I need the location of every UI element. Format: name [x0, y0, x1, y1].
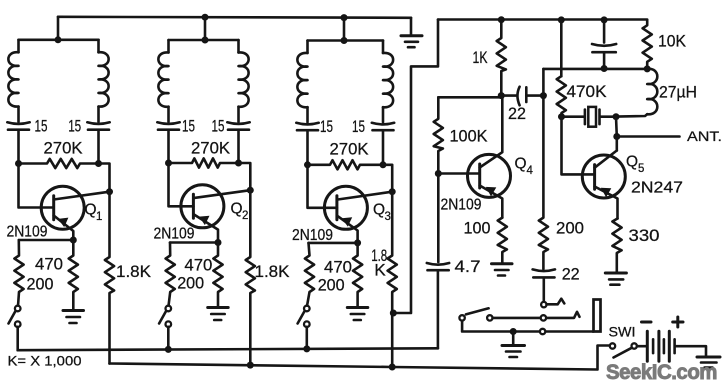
wire right section feed from top bus	[394, 20, 439, 314]
wire Q5 base branch	[562, 117, 595, 175]
svg-text:K= X 1,000: K= X 1,000	[8, 352, 82, 368]
inductor L3b right winding	[383, 41, 393, 123]
ground row B	[502, 332, 525, 358]
battery B1	[647, 331, 674, 361]
svg-text:100: 100	[464, 218, 491, 237]
wire coil top stage 3	[308, 39, 384, 42]
node Q3 collector dot	[389, 188, 396, 195]
wire stage2 base branch	[169, 163, 194, 206]
resistor R 1.8K stage 3	[388, 192, 397, 367]
svg-text:SWI: SWI	[609, 325, 636, 340]
svg-text:5: 5	[638, 163, 644, 175]
node coil tap 2	[202, 37, 209, 44]
wire SW1 to battery	[637, 345, 646, 348]
svg-text:470: 470	[184, 255, 212, 274]
capacitor 15 stage 2 left	[157, 122, 179, 163]
node 470K top	[558, 16, 565, 23]
node stage3 emitter dot	[354, 239, 361, 246]
svg-text:Q: Q	[626, 154, 638, 171]
capacitor 4.7	[427, 177, 449, 349]
node Q2 collector dot	[247, 187, 254, 194]
svg-text:Q: Q	[231, 201, 243, 218]
node 1K bottom 22cap left	[498, 92, 505, 99]
svg-text:4: 4	[527, 165, 534, 177]
wire stage3 base branch	[308, 165, 337, 208]
label battery minus	[642, 321, 652, 324]
svg-text:2: 2	[242, 210, 248, 222]
wire tap stub stage 3	[343, 18, 346, 41]
node 1K top	[498, 16, 505, 23]
node stage1 base junction	[15, 160, 22, 167]
ground battery	[697, 357, 720, 368]
switch contact row A right	[541, 312, 580, 321]
wire switch row A	[493, 317, 541, 320]
label Q2	[231, 201, 249, 223]
svg-text:100K: 100K	[450, 126, 489, 145]
node stage3 switch to bus	[303, 345, 310, 352]
svg-text:2N109: 2N109	[292, 227, 333, 244]
svg-text:200: 200	[177, 274, 204, 293]
ground stage 1 emitter	[63, 311, 84, 324]
switch contact from 22 cap	[541, 299, 564, 308]
svg-text:1.8K: 1.8K	[255, 262, 291, 281]
svg-text:2N109: 2N109	[7, 224, 48, 241]
svg-text:Q: Q	[85, 202, 97, 219]
wire bus2 ground return	[110, 346, 610, 370]
capacitor top right	[592, 20, 616, 69]
resistor 470/200 stage 1	[14, 240, 23, 306]
transistor Q2	[181, 185, 250, 243]
resistor 270K stage 3	[308, 160, 384, 169]
transistor Q4	[468, 96, 511, 218]
resistor R 1.8K stage 1	[105, 192, 114, 364]
wire Q5 collector from ANT node	[615, 137, 618, 151]
crystal Y1	[585, 107, 600, 127]
wire coil top stage 2	[169, 39, 239, 42]
wire bus1 switch common	[18, 348, 438, 350]
wire tap stub stage 2	[204, 17, 207, 40]
wire 22cap node up to row y69	[542, 69, 545, 96]
transistor Q5	[582, 151, 625, 219]
resistor emitter 470 stage3 to ground	[353, 243, 362, 307]
capacitor 15 stage 1 left	[7, 122, 29, 163]
inductor L2a left winding	[158, 40, 168, 122]
svg-text:15: 15	[212, 117, 225, 136]
label Q1	[85, 202, 103, 224]
svg-text:ANT.: ANT.	[687, 129, 722, 144]
label Q4	[515, 156, 534, 178]
capacitor 22 bypass	[533, 269, 555, 301]
node 10K bottom coil top	[644, 65, 651, 72]
svg-text:270K: 270K	[191, 138, 231, 157]
svg-text:330: 330	[629, 226, 660, 245]
ground stage 2 emitter	[208, 308, 229, 321]
svg-text:1.8K: 1.8K	[116, 262, 152, 281]
resistor 470/200 stage 3	[305, 243, 314, 306]
node stage2 switch to bus	[165, 346, 172, 353]
svg-text:15: 15	[320, 117, 333, 136]
resistor 330	[612, 219, 621, 273]
node 22cap right junction	[540, 92, 547, 99]
svg-text:270K: 270K	[44, 138, 84, 157]
node Q4 base junction	[435, 170, 442, 177]
wire top supply bus right section	[438, 18, 647, 21]
capacitor 15 stage 3 left	[296, 123, 318, 165]
inductor 27uH	[616, 69, 657, 117]
resistor 270K stage 2	[169, 158, 239, 167]
node stage3 1.8K to bus2	[389, 364, 396, 371]
resistor R 1.8K stage 2	[246, 190, 255, 365]
switch stage 3	[298, 306, 310, 349]
svg-text:Q: Q	[515, 156, 527, 173]
inductor L3a left winding	[297, 41, 307, 123]
capacitor 15 stage 2 right	[227, 122, 249, 163]
svg-text:27µH: 27µH	[659, 84, 697, 102]
capacitor 15 stage 1 right	[87, 122, 109, 163]
wire crystal row	[562, 115, 617, 118]
node coil tap 3	[341, 37, 348, 44]
switch contact row B	[540, 329, 545, 334]
ground stage 3 emitter	[347, 308, 368, 321]
svg-text:15: 15	[68, 117, 81, 136]
wire battery to ground	[676, 346, 707, 356]
label battery plus	[673, 317, 683, 327]
svg-text:200: 200	[318, 275, 345, 294]
resistor 100 Q4 emitter	[498, 218, 507, 263]
resistor emitter 470 stage1 to ground	[69, 240, 78, 310]
wire 470K top stub	[560, 20, 563, 76]
switch bank rotary left contact	[459, 308, 492, 320]
node crystal left 470K bottom	[558, 113, 565, 120]
node cap bottom	[601, 65, 608, 72]
jack J1	[594, 300, 601, 332]
wire Q4 base lead	[438, 172, 479, 175]
svg-text:Q: Q	[373, 202, 385, 219]
node cap top	[601, 16, 608, 23]
node stage1 collector junction	[95, 160, 102, 167]
inductor L1a left winding	[8, 40, 18, 122]
wire switch row B	[462, 321, 593, 332]
svg-text:22: 22	[508, 104, 526, 123]
value label 1.8 K stage3	[371, 246, 387, 279]
node stage2 1.8K to bus2	[247, 362, 254, 369]
resistor 470K	[557, 76, 566, 117]
resistor 470/200 stage 2	[166, 243, 175, 307]
node stage1 emitter dot	[70, 237, 77, 244]
inductor L2b right winding	[239, 40, 249, 122]
svg-text:15: 15	[35, 117, 48, 136]
switch SW1	[610, 343, 637, 357]
svg-text:470: 470	[35, 254, 63, 273]
resistor 1K	[497, 20, 506, 96]
wire crystal node to ANT node	[615, 117, 618, 137]
wire coil top stage 1	[19, 38, 99, 41]
svg-text:3: 3	[385, 211, 391, 223]
svg-text:22: 22	[562, 264, 580, 283]
svg-text:1K: 1K	[473, 48, 488, 67]
svg-text:470: 470	[324, 257, 352, 276]
resistor 100K	[434, 97, 443, 173]
transistor Q3	[324, 186, 392, 243]
wire 100K top row	[438, 96, 501, 99]
node stage3 base junction	[304, 161, 311, 168]
wire stage3 row to collector column	[383, 165, 392, 192]
switch stage 2	[159, 306, 171, 350]
wire stage2 row to collector column	[239, 163, 251, 190]
wire stage1 row to collector column	[99, 164, 110, 192]
svg-text:470K: 470K	[567, 82, 608, 101]
svg-text:200: 200	[556, 218, 584, 237]
wire interstage row y69	[543, 68, 647, 71]
wire stage3 emitter row	[309, 242, 358, 245]
node ANT junction	[613, 133, 620, 140]
node stage2 collector junction	[235, 160, 242, 167]
svg-text:2N247: 2N247	[631, 180, 683, 197]
node tap top 2	[202, 14, 209, 21]
wire stage1 emitter row	[19, 239, 74, 242]
inductor L1b right winding	[99, 40, 109, 122]
wire stage1 base branch	[19, 164, 54, 208]
svg-text:200: 200	[27, 275, 54, 294]
wire top supply bus left section	[58, 17, 411, 18]
switch stage 1	[9, 306, 21, 351]
resistor emitter 470 stage2 to ground	[213, 243, 222, 307]
ground Q5 emitter	[605, 273, 626, 285]
node feed to stage3 column	[390, 310, 397, 317]
node coil tap 1	[55, 36, 62, 43]
capacitor 15 stage 3 right	[372, 123, 394, 165]
node tap top 3	[341, 14, 348, 21]
wire stage2 emitter row	[170, 241, 218, 244]
svg-text:K: K	[374, 260, 386, 279]
node row B ground tap	[510, 328, 517, 335]
node crystal right	[613, 113, 620, 120]
svg-text:SeekIC.com: SeekIC.com	[606, 361, 717, 384]
capacitor 22 coupling Q4	[501, 87, 543, 106]
resistor 270K stage 1	[19, 159, 99, 168]
svg-text:10K: 10K	[658, 32, 687, 51]
ground top at right of bus	[401, 18, 422, 47]
svg-text:2N109: 2N109	[154, 226, 195, 243]
svg-text:15: 15	[352, 117, 365, 136]
resistor 10K	[643, 20, 652, 69]
node stage3 collector junction	[380, 161, 387, 168]
svg-text:2N109: 2N109	[441, 197, 482, 214]
svg-text:15: 15	[182, 117, 195, 136]
transistor Q1	[41, 186, 109, 240]
label Q3	[373, 202, 391, 224]
svg-text:4.7: 4.7	[455, 257, 481, 276]
ground Q4 emitter	[492, 264, 513, 276]
svg-text:1: 1	[96, 211, 102, 223]
svg-text:270K: 270K	[330, 139, 370, 158]
resistor 200 Q5 side	[539, 96, 548, 269]
label Q5	[626, 154, 644, 176]
node stage2 base junction	[165, 160, 172, 167]
wire antenna lead	[617, 135, 680, 138]
wire tap stub stage 1	[57, 17, 60, 40]
node stage2 emitter dot	[215, 239, 222, 246]
node Q1 collector dot	[106, 188, 113, 195]
